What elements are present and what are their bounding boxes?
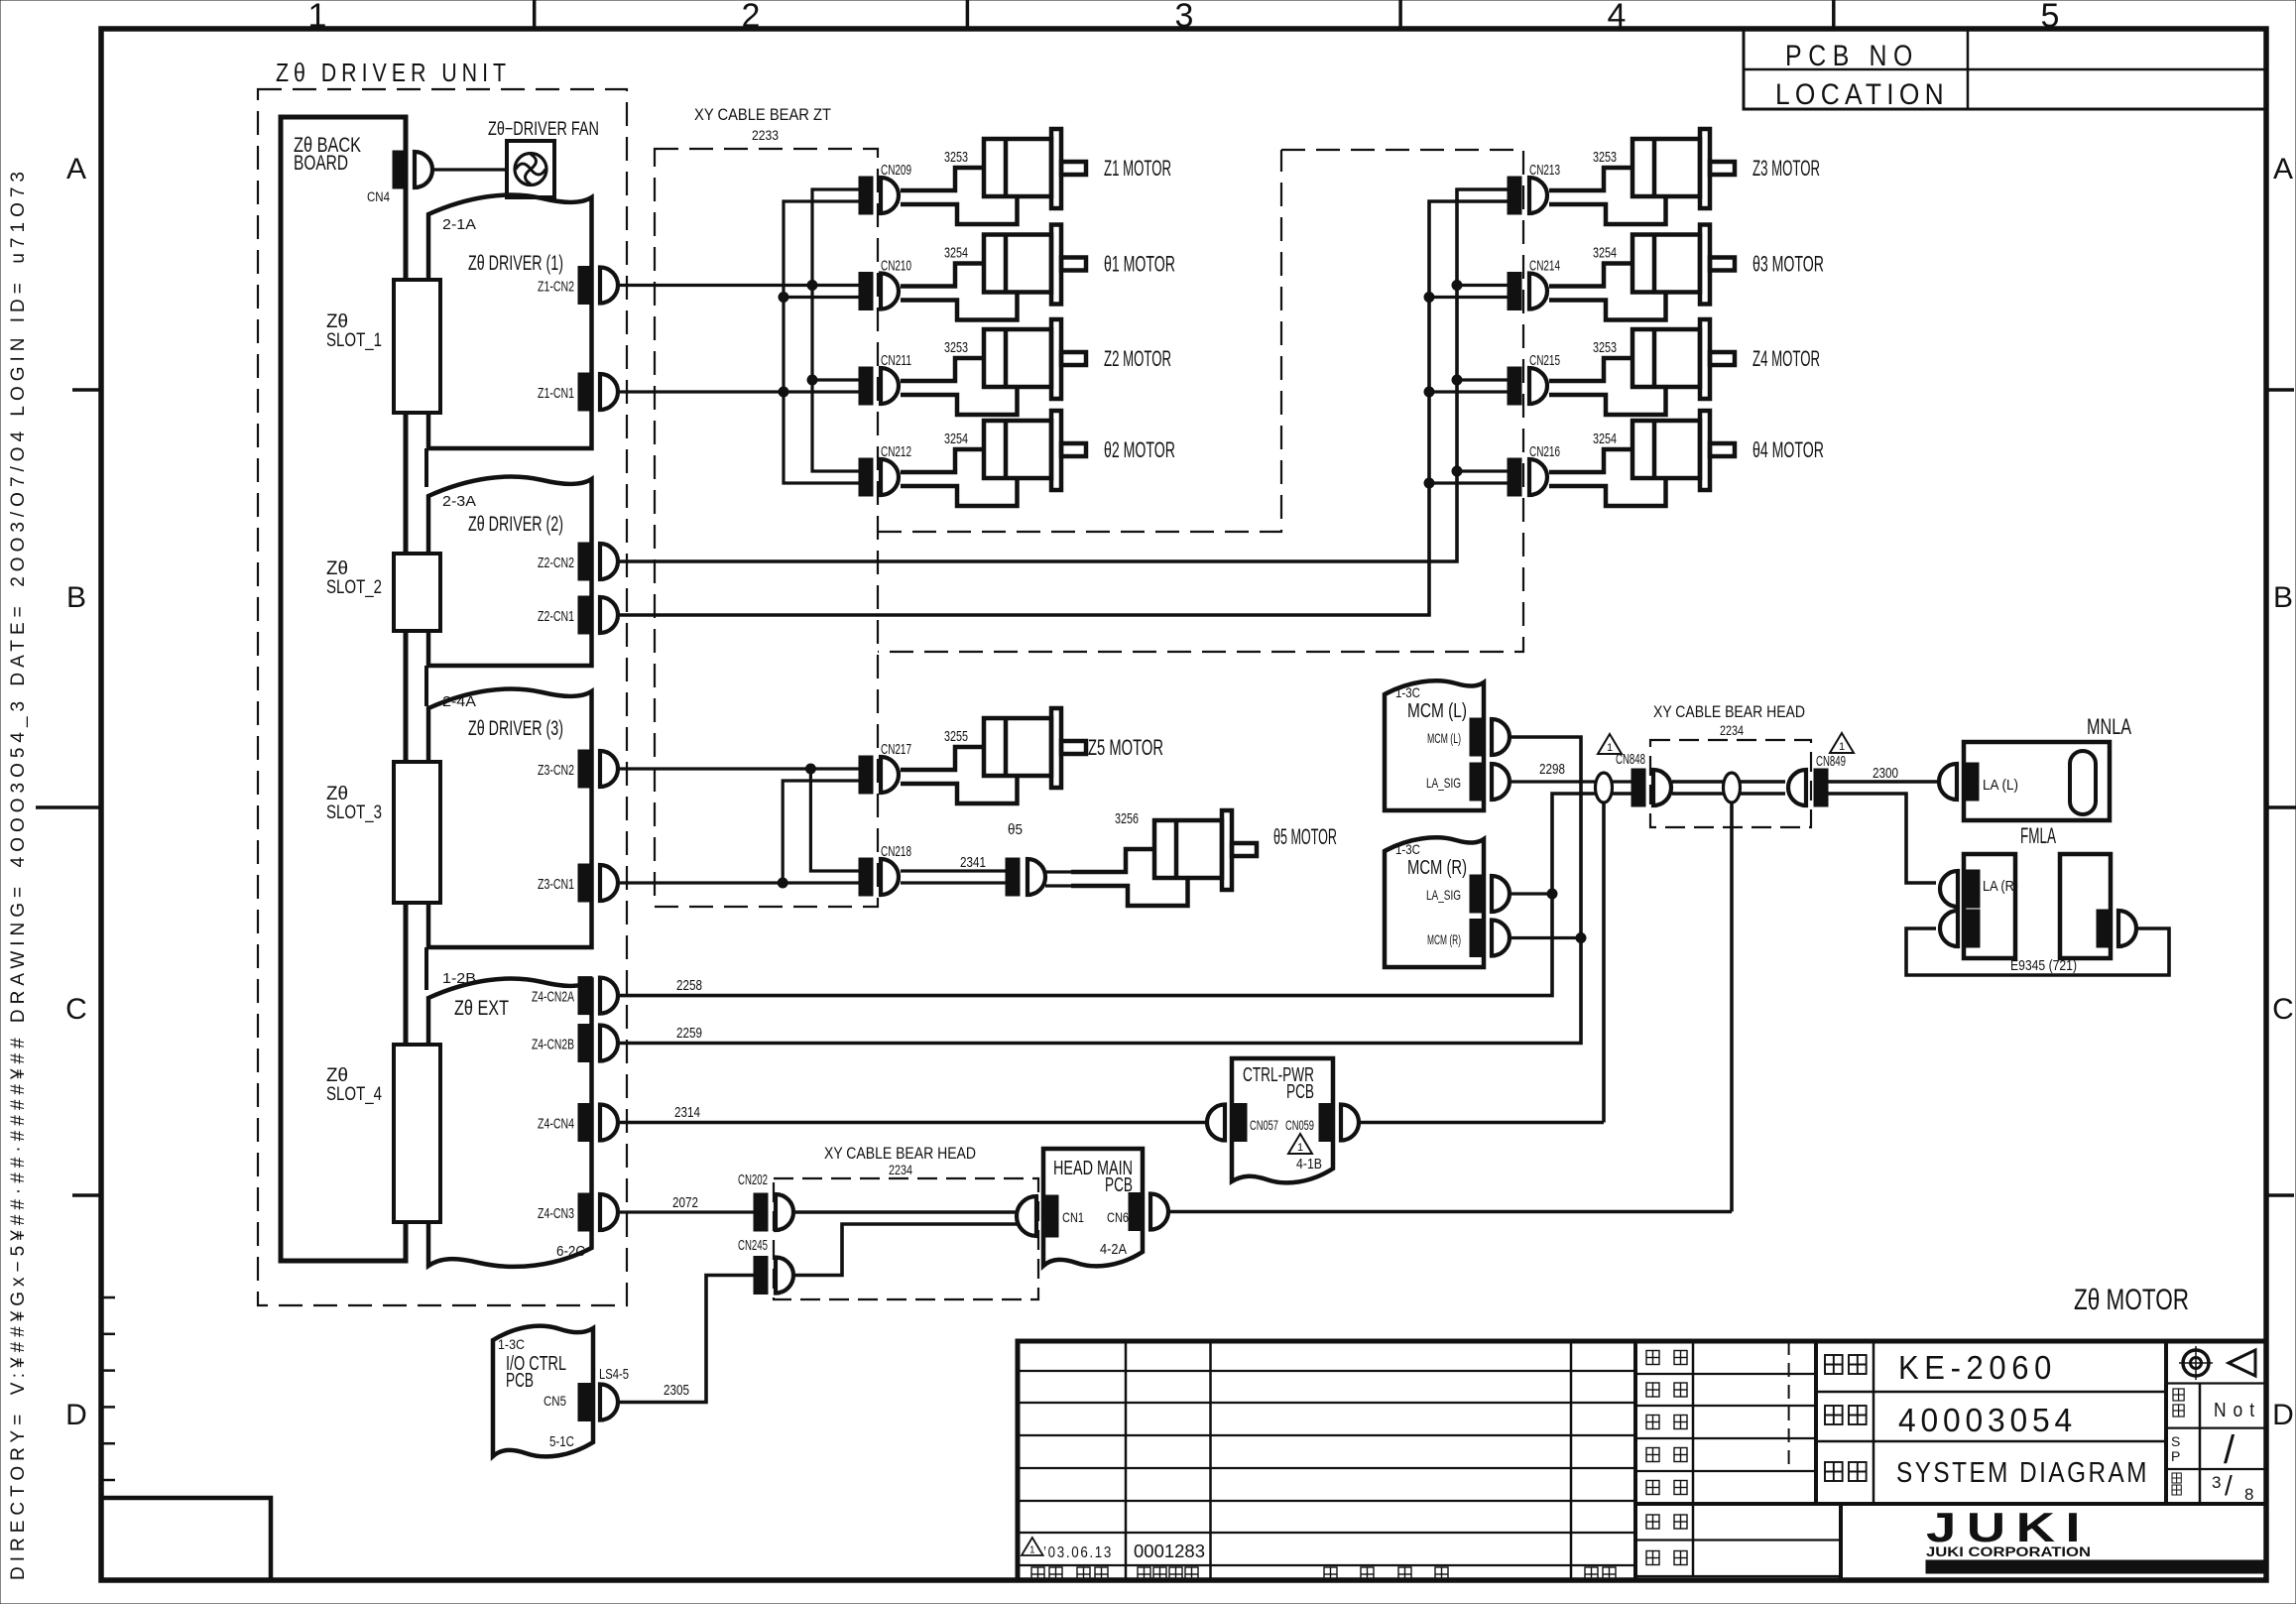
- svg-text:Z3 MOTOR: Z3 MOTOR: [1752, 156, 1820, 181]
- wire CN059 to shield riser: [1359, 1121, 1604, 1125]
- cable ring 2: [1724, 773, 1741, 802]
- svg-text:3253: 3253: [944, 149, 968, 166]
- shield wire down to CN6 net: [1730, 802, 1734, 1212]
- connector CN216: [1508, 458, 1547, 496]
- svg-text:1-3C: 1-3C: [1395, 841, 1420, 857]
- svg-text:MCM (R): MCM (R): [1427, 931, 1461, 947]
- bus B tap 475: [1457, 469, 1508, 472]
- svg-text:CN849: CN849: [1816, 753, 1846, 770]
- svg-text:θ2 MOTOR: θ2 MOTOR: [1104, 437, 1175, 462]
- svg-text:1-3C: 1-3C: [498, 1336, 525, 1352]
- wire 2072 Z4-CN3 to CN202: [618, 1210, 754, 1213]
- svg-text:CN057: CN057: [1250, 1117, 1278, 1133]
- svg-text:1-3C: 1-3C: [1395, 684, 1420, 700]
- svg-text:1: 1: [1029, 1544, 1035, 1555]
- svg-text:CN5: CN5: [544, 1393, 566, 1409]
- svg-text:2072: 2072: [672, 1194, 698, 1211]
- motor symbol θ2 MOTOR: [901, 411, 1086, 506]
- svg-text:2-4A: 2-4A: [442, 693, 476, 710]
- svg-text:/: /: [2224, 1428, 2236, 1472]
- svg-text:Z3-CN2: Z3-CN2: [538, 762, 574, 779]
- zone tick marks right: [2266, 388, 2294, 392]
- backboard slot SLOT_4: [394, 1045, 440, 1222]
- svg-text:1: 1: [308, 0, 327, 35]
- svg-text:θ5: θ5: [1008, 821, 1023, 838]
- svg-text:Z1-CN1: Z1-CN1: [538, 385, 574, 402]
- svg-text:Zθ DRIVER (2): Zθ DRIVER (2): [468, 513, 563, 536]
- wire 2314 Z4-CN4 to CN057: [618, 1121, 1207, 1125]
- svg-text:3253: 3253: [1593, 339, 1617, 356]
- Z0 BACK BOARD: [281, 117, 406, 1261]
- connector Z1-CN1: [578, 373, 618, 411]
- svg-text:MNLA: MNLA: [2087, 714, 2131, 739]
- title block verticals: [1125, 1341, 1128, 1580]
- svg-text:3254: 3254: [944, 245, 968, 262]
- svg-text:XY CABLE BEAR ZT: XY CABLE BEAR ZT: [694, 105, 831, 124]
- connector CN849 D: [1788, 769, 1828, 806]
- svg-text:Zθ MOTOR: Zθ MOTOR: [2074, 1284, 2189, 1316]
- approval table rows: [1635, 1373, 1816, 1375]
- svg-text:3253: 3253: [944, 339, 968, 356]
- svg-text:B: B: [66, 581, 86, 614]
- connector CN212: [859, 458, 899, 496]
- svg-text:FMLA: FMLA: [2020, 823, 2056, 848]
- connector CN217: [859, 756, 899, 794]
- svg-text:XY CABLE BEAR HEAD: XY CABLE BEAR HEAD: [1653, 702, 1805, 721]
- svg-text:MCM (L): MCM (L): [1407, 700, 1467, 722]
- svg-text:4: 4: [1608, 0, 1627, 35]
- svg-text:Zθ: Zθ: [326, 784, 348, 804]
- connector LA_SIG (R): [1470, 875, 1510, 913]
- svg-text:θ4 MOTOR: θ4 MOTOR: [1752, 437, 1824, 462]
- bus to CN217 pin2: [783, 781, 859, 883]
- record row: [1022, 1538, 1043, 1555]
- cable pair inside bear head: [1672, 780, 1785, 784]
- MNLA oval: [2070, 751, 2096, 814]
- backboard slot SLOT_1: [394, 280, 440, 413]
- svg-text:SLOT_2: SLOT_2: [326, 577, 382, 598]
- svg-text:Zθ DRIVER UNIT: Zθ DRIVER UNIT: [276, 58, 511, 87]
- svg-text:Z1-CN2: Z1-CN2: [538, 279, 574, 296]
- motor symbol Z5 MOTOR: [901, 708, 1086, 803]
- bus B tap 287.5: [1457, 284, 1508, 287]
- svg-text:SLOT_4: SLOT_4: [326, 1084, 382, 1105]
- svg-text:S: S: [2171, 1433, 2180, 1449]
- svg-text:1: 1: [1607, 742, 1613, 754]
- svg-text:Z2-CN2: Z2-CN2: [538, 555, 574, 571]
- shield wire down to CN059 net: [1602, 802, 1606, 1123]
- card I/O CTRL PCB: [493, 1326, 593, 1457]
- svg-text:2305: 2305: [664, 1382, 689, 1399]
- svg-text:3254: 3254: [1593, 431, 1617, 447]
- svg-text:C: C: [2272, 993, 2294, 1026]
- connector CN6: [1129, 1193, 1168, 1231]
- driver card Z0 DRIVER (3): [428, 689, 592, 947]
- MNLA box: [1964, 742, 2110, 820]
- svg-text:SYSTEM DIAGRAM: SYSTEM DIAGRAM: [1896, 1457, 2149, 1489]
- dashed box XY CABLE BEAR HEAD left: [774, 1178, 1038, 1299]
- svg-text:PCB: PCB: [1286, 1081, 1314, 1103]
- connector Z4-CN4: [578, 1104, 618, 1142]
- wire 2341 CN218 to th5 connector: [901, 869, 1006, 872]
- svg-text:Not: Not: [2214, 1400, 2261, 1421]
- connector MCM (L): [1470, 718, 1510, 756]
- svg-text:2314: 2314: [674, 1104, 700, 1121]
- svg-text:1: 1: [1297, 1142, 1303, 1154]
- dashed vertical in approval table: [1788, 1341, 1790, 1471]
- wire Z2-CN1 to right bus: [618, 483, 1429, 615]
- bus A tap 395: [1429, 390, 1508, 393]
- svg-text:θ1 MOTOR: θ1 MOTOR: [1104, 252, 1175, 277]
- projection symbol: [2183, 1350, 2209, 1376]
- svg-text:Z3-CN1: Z3-CN1: [538, 876, 574, 893]
- connector Z3-CN1: [578, 864, 618, 902]
- JUKI black bar: [1926, 1560, 2264, 1573]
- wire 2258 Z4-CN2A to LA_SIG(R) and CN848: [618, 794, 1631, 996]
- svg-text:Z4-CN2A: Z4-CN2A: [532, 989, 574, 1006]
- svg-text:PCB NO: PCB NO: [1785, 40, 1919, 72]
- svg-text:XY CABLE BEAR HEAD: XY CABLE BEAR HEAD: [824, 1144, 976, 1163]
- svg-text:LA (L): LA (L): [1983, 777, 2018, 794]
- wire CN6 to shield riser 2: [1168, 1210, 1732, 1214]
- dashed box XY CABLE BEAR ZT left: [655, 149, 878, 907]
- svg-text:MCM (L): MCM (L): [1427, 730, 1461, 746]
- connector CN202: [754, 1193, 793, 1231]
- wire Z3-CN2 to CN217: [618, 767, 859, 770]
- inter-card connection wires: [424, 448, 428, 487]
- cable pair CN202/CN245 to CN1: [795, 1210, 1018, 1214]
- fan: [507, 141, 554, 197]
- bus A tap 487: [1429, 481, 1508, 484]
- svg-text:Z1 MOTOR: Z1 MOTOR: [1104, 156, 1171, 181]
- driver card Z0 DRIVER (2): [428, 477, 592, 666]
- connector Z4-CN3: [578, 1193, 618, 1231]
- bus B taps: [812, 378, 859, 381]
- svg-text:θ3 MOTOR: θ3 MOTOR: [1752, 252, 1824, 277]
- svg-text:SLOT_1: SLOT_1: [326, 330, 382, 351]
- svg-text:Zθ DRIVER (3): Zθ DRIVER (3): [468, 717, 563, 740]
- warning triangle CTRL-PWR: [1288, 1134, 1312, 1154]
- motor symbol θ1 MOTOR: [901, 225, 1086, 320]
- motor symbol θ3 MOTOR: [1549, 225, 1735, 320]
- connector Z1-CN2: [578, 267, 618, 305]
- wire Z2-CN2 to right bus: [618, 471, 1457, 561]
- scale cell: [2173, 1389, 2184, 1401]
- model rows labels: [1825, 1355, 1843, 1374]
- connector CN4: [393, 151, 432, 188]
- svg-text:/: /: [2225, 1470, 2233, 1501]
- storage/similar labels: [1646, 1515, 1659, 1529]
- card MCM (L): [1385, 680, 1484, 810]
- svg-text:5-1C: 5-1C: [549, 1433, 574, 1450]
- svg-text:2-1A: 2-1A: [442, 216, 476, 233]
- svg-text:Z4-CN4: Z4-CN4: [538, 1116, 574, 1133]
- warning triangle CN849: [1830, 733, 1854, 753]
- svg-text:Z4 MOTOR: Z4 MOTOR: [1752, 346, 1820, 371]
- svg-text:θ5 MOTOR: θ5 MOTOR: [1273, 824, 1337, 849]
- svg-text:CN848: CN848: [1616, 751, 1645, 768]
- warning triangle CN848: [1598, 734, 1622, 754]
- backboard slot SLOT_3: [394, 762, 440, 903]
- svg-text:3253: 3253: [1593, 149, 1617, 166]
- connector CN210: [859, 273, 899, 310]
- svg-text:CN202: CN202: [738, 1172, 768, 1188]
- connector Z4-CN2B: [578, 1025, 618, 1062]
- dashed box XY CABLE BEAR HEAD right: [1650, 740, 1811, 827]
- FMLA right box: [2060, 854, 2111, 958]
- svg-text:P: P: [2171, 1448, 2180, 1464]
- FMLA left box: [1964, 854, 2015, 958]
- PCB NO / LOCATION table: [1744, 30, 2265, 109]
- stub MCM(R): [1511, 936, 1581, 939]
- connector FMLA right: [2097, 910, 2136, 947]
- approval labels (kanji): [1646, 1351, 1659, 1365]
- connector Z2-CN1: [578, 596, 618, 634]
- connector LA_SIG (L): [1470, 763, 1510, 801]
- wire Z1-CN2 to bus: [618, 284, 859, 287]
- svg-text:Zθ DRIVER (1): Zθ DRIVER (1): [468, 252, 563, 275]
- svg-text:40003054: 40003054: [1898, 1402, 2077, 1438]
- svg-text:’03.06.13: ’03.06.13: [1043, 1544, 1113, 1561]
- svg-text:2234: 2234: [889, 1162, 912, 1177]
- svg-text:3255: 3255: [944, 728, 968, 745]
- connector Z3-CN2: [578, 750, 618, 788]
- svg-text:2341: 2341: [960, 854, 986, 871]
- wire 2305 CN5 to CN245: [618, 1276, 754, 1403]
- right section rows: [1816, 1391, 2166, 1394]
- connector Z2-CN2: [578, 543, 618, 580]
- bus A right cluster: [1429, 201, 1508, 483]
- title block horizontals left table: [1018, 1370, 1635, 1372]
- svg-text:2258: 2258: [676, 977, 702, 994]
- svg-text:Z4-CN3: Z4-CN3: [538, 1205, 574, 1222]
- svg-text:LA_SIG: LA_SIG: [1426, 887, 1461, 903]
- svg-text:Zθ EXT: Zθ EXT: [454, 997, 509, 1020]
- motor symbol Z3 MOTOR: [1549, 129, 1735, 224]
- svg-text:8: 8: [2244, 1485, 2253, 1504]
- svg-text:A: A: [2273, 153, 2293, 185]
- motor symbol Z2 MOTOR: [901, 319, 1086, 415]
- svg-text:MCM (R): MCM (R): [1407, 857, 1467, 879]
- svg-text:6-2C: 6-2C: [556, 1243, 585, 1260]
- svg-text:PCB: PCB: [506, 1370, 534, 1392]
- svg-text:CN245: CN245: [738, 1237, 768, 1254]
- svg-text:B: B: [2273, 581, 2293, 614]
- svg-text:2-3A: 2-3A: [442, 493, 476, 510]
- svg-text:Z2 MOTOR: Z2 MOTOR: [1104, 346, 1171, 371]
- bus B left cluster: [812, 189, 859, 471]
- wire 2259 Z4-CN2B to MCM bus: [618, 737, 1581, 1044]
- connector CN218: [859, 858, 899, 896]
- wire th5 connector to motor: [1045, 870, 1075, 873]
- connector CN5: [578, 1384, 618, 1421]
- wire 2300 pair to MNLA/FMLA: [1828, 780, 1937, 784]
- connector CN211: [859, 367, 899, 405]
- wire Z1-CN1 to bus: [618, 390, 859, 393]
- svg-text:D: D: [65, 1399, 87, 1431]
- svg-text:2233: 2233: [752, 127, 779, 143]
- svg-text:A: A: [66, 153, 86, 185]
- connector CN059: [1319, 1104, 1359, 1142]
- motor symbol Z1 MOTOR: [901, 129, 1086, 224]
- svg-text:SLOT_3: SLOT_3: [326, 802, 382, 823]
- bus B tap 383: [1457, 378, 1508, 381]
- svg-text:Zθ: Zθ: [326, 1065, 348, 1086]
- svg-text:Zθ: Zθ: [326, 558, 348, 579]
- connector CN215: [1508, 367, 1547, 405]
- connector LA (R): [1940, 870, 1980, 908]
- svg-text:2298: 2298: [1539, 761, 1565, 778]
- title block outer: [1018, 1341, 2266, 1580]
- bus A tap 299.5: [1429, 296, 1508, 299]
- svg-text:Z4-CN2B: Z4-CN2B: [532, 1037, 574, 1053]
- storage/similar rows: [1635, 1539, 1841, 1541]
- svg-text:4-1B: 4-1B: [1296, 1156, 1322, 1172]
- svg-text:KE-2060: KE-2060: [1898, 1349, 2057, 1386]
- card HEAD MAIN PCB: [1043, 1149, 1143, 1266]
- stub LA_SIG(R): [1511, 892, 1552, 895]
- connector θ5 connector: [1006, 858, 1045, 896]
- svg-text:Z2-CN1: Z2-CN1: [538, 608, 574, 625]
- connector CN209: [859, 177, 899, 214]
- Z0 DRIVER UNIT dashed box: [258, 89, 627, 1305]
- svg-text:CN4: CN4: [367, 188, 390, 204]
- svg-text:3254: 3254: [944, 431, 968, 447]
- svg-text:2300: 2300: [1873, 765, 1898, 782]
- connector Z4-CN2A: [578, 977, 618, 1015]
- svg-text:CN059: CN059: [1285, 1117, 1314, 1133]
- wire 2298 LA_SIG(L) to CN848: [1511, 780, 1631, 783]
- svg-text:3: 3: [2212, 1473, 2221, 1492]
- bus to CN218 pin1: [810, 769, 859, 871]
- svg-text:2: 2: [742, 0, 761, 35]
- connector CN245: [754, 1257, 793, 1295]
- card CTRL-PWR PCB: [1232, 1058, 1333, 1182]
- connector CN213: [1508, 177, 1547, 214]
- connector CN1: [1017, 1195, 1058, 1237]
- bus A left cluster: [784, 201, 859, 483]
- svg-text:CN6: CN6: [1107, 1209, 1129, 1225]
- connector CN214: [1508, 273, 1547, 310]
- motor symbol θ5 MOTOR: [1071, 810, 1257, 906]
- bottom header labels: [1031, 1567, 1044, 1581]
- svg-text:1: 1: [1839, 741, 1845, 753]
- svg-text:1-2B: 1-2B: [442, 970, 476, 987]
- svg-text:Zθ: Zθ: [326, 311, 348, 332]
- svg-text:Zθ−DRIVER FAN: Zθ−DRIVER FAN: [488, 119, 599, 140]
- backboard slot SLOT_2: [394, 554, 440, 631]
- svg-text:4-2A: 4-2A: [1100, 1241, 1127, 1258]
- svg-text:2234: 2234: [1720, 722, 1744, 738]
- card MCM (R): [1385, 837, 1484, 967]
- wire CN4 to fan: [432, 168, 507, 171]
- bus B right cluster: [1457, 189, 1508, 471]
- card Z0 EXT: [428, 979, 592, 1267]
- driver card Z0 DRIVER (1): [428, 195, 592, 448]
- svg-text:3: 3: [1175, 0, 1194, 35]
- svg-text:2259: 2259: [676, 1025, 702, 1042]
- svg-text:C: C: [65, 993, 87, 1026]
- wire Z3-CN1 to CN218: [618, 881, 859, 884]
- svg-text:BOARD: BOARD: [294, 152, 348, 175]
- margin ruler ticks: [101, 1296, 115, 1299]
- svg-text:LA_SIG: LA_SIG: [1426, 775, 1461, 791]
- svg-text:LOCATION: LOCATION: [1775, 78, 1949, 111]
- connector CN057: [1207, 1104, 1247, 1142]
- motor symbol Z4 MOTOR: [1549, 319, 1735, 415]
- dashed cable duct to right cluster: [878, 150, 1281, 532]
- zone tick marks left: [72, 388, 101, 392]
- motor symbol θ4 MOTOR: [1549, 411, 1735, 506]
- svg-text:LS4-5: LS4-5: [599, 1366, 629, 1383]
- svg-text:3254: 3254: [1593, 245, 1617, 262]
- svg-text:0001283: 0001283: [1134, 1542, 1205, 1561]
- connector CN848: [1631, 769, 1671, 806]
- connector FMLA lower left: [1940, 910, 1980, 947]
- svg-text:LA (R): LA (R): [1983, 878, 2018, 895]
- svg-text:3256: 3256: [1115, 810, 1139, 827]
- svg-text:JUKI CORPORATION: JUKI CORPORATION: [1926, 1543, 2091, 1559]
- svg-text:CN1: CN1: [1062, 1209, 1084, 1225]
- bottom left small box: [101, 1498, 271, 1580]
- connector MCM (R): [1470, 920, 1510, 957]
- wire E9345 (721): [1906, 928, 2169, 975]
- svg-text:D: D: [2272, 1399, 2294, 1431]
- svg-text:Z5 MOTOR: Z5 MOTOR: [1088, 735, 1163, 760]
- connector LA (L): [1939, 763, 1979, 801]
- svg-text:E9345 (721): E9345 (721): [2010, 957, 2077, 974]
- zone tick marks top: [533, 0, 537, 29]
- bus A taps: [784, 296, 859, 299]
- cable ring 1: [1596, 773, 1613, 802]
